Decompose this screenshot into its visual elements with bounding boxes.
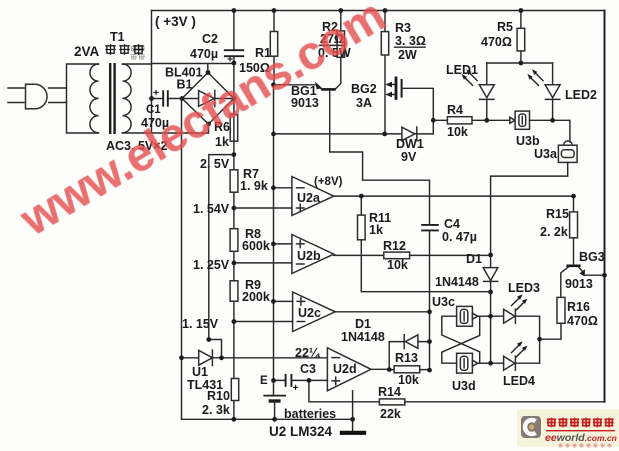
svg-text:U3d: U3d xyxy=(452,379,476,393)
junction dots comparator outputs xyxy=(359,194,607,373)
wire secondary bottom to bridge bottom vertex xyxy=(152,124,209,133)
op-amp U2c xyxy=(234,292,335,332)
svg-text:9V: 9V xyxy=(401,150,417,164)
svg-text:470Ω: 470Ω xyxy=(567,314,598,328)
diode D1 1N4148 (upper) xyxy=(435,252,498,363)
resistor R15 xyxy=(540,196,578,239)
capacitor C3 xyxy=(260,362,316,394)
op-amp U2d xyxy=(295,346,389,391)
svg-text:( +3V ): ( +3V ) xyxy=(155,14,196,29)
battery E xyxy=(263,396,336,421)
reed switch U3d xyxy=(452,353,491,393)
svg-text:2. 3k: 2. 3k xyxy=(202,403,230,417)
svg-text:9013: 9013 xyxy=(291,96,319,110)
svg-text:E: E xyxy=(260,375,268,387)
resistor R16 xyxy=(540,297,598,339)
resistor R1 xyxy=(239,11,278,85)
svg-text:R12: R12 xyxy=(383,239,406,253)
svg-text:1N4148: 1N4148 xyxy=(435,275,479,289)
capacitor C1 xyxy=(141,87,182,130)
op-amp U2b xyxy=(234,235,334,274)
svg-text:U3a: U3a xyxy=(534,147,558,161)
resistor R7 xyxy=(230,167,268,193)
capacitor C4 xyxy=(421,217,477,370)
capacitor C2 xyxy=(190,11,244,99)
svg-text:U3c: U3c xyxy=(432,295,455,309)
svg-text:10k: 10k xyxy=(387,258,408,272)
junction dots bridge area xyxy=(149,61,236,127)
svg-text:BG2: BG2 xyxy=(351,82,377,96)
svg-text:22k: 22k xyxy=(380,407,401,421)
LED LED3 xyxy=(491,281,540,323)
transistor BG3 9013 xyxy=(561,238,605,298)
svg-text:U2c: U2c xyxy=(298,306,321,320)
wire left frame edge from top rail to transformer secondary xyxy=(151,11,153,65)
svg-text:600k: 600k xyxy=(242,239,270,253)
transistor BG1 9013 xyxy=(274,62,430,225)
svg-text:470Ω: 470Ω xyxy=(481,35,512,49)
resistor R4 xyxy=(433,103,509,139)
wire divider column xyxy=(233,99,235,420)
svg-text:2W: 2W xyxy=(398,48,417,62)
svg-text:U3b: U3b xyxy=(516,134,540,148)
svg-text:R13: R13 xyxy=(395,351,418,365)
bridge rectifier B1 BL401 xyxy=(152,64,234,125)
svg-text:10k: 10k xyxy=(447,125,468,139)
svg-text:LED3: LED3 xyxy=(508,281,540,295)
resistor R10 xyxy=(202,379,239,418)
resistor R3 xyxy=(381,11,426,134)
svg-text:C4: C4 xyxy=(444,217,460,231)
svg-text:0. 47µ: 0. 47µ xyxy=(442,230,477,244)
svg-text:eeworld.com.cn: eeworld.com.cn xyxy=(545,432,617,444)
svg-text:U2a: U2a xyxy=(297,191,321,205)
svg-text:470µ: 470µ xyxy=(190,47,218,61)
resistor R5 xyxy=(481,11,525,64)
wire battery bottom rail xyxy=(182,418,353,420)
svg-text:2. 2k: 2. 2k xyxy=(540,225,568,239)
shunt regulator U1 TL431 xyxy=(182,99,328,420)
svg-text:+: + xyxy=(293,382,299,394)
wire latch cross coupling xyxy=(442,316,480,363)
svg-text:D1: D1 xyxy=(466,252,482,266)
wire +3V top rail xyxy=(152,10,605,12)
wire U2a output to R15 xyxy=(334,195,574,197)
reed relay coil U3a xyxy=(491,141,578,255)
svg-text:BG3: BG3 xyxy=(579,250,605,264)
resistor R8 xyxy=(230,227,270,253)
svg-text:R5: R5 xyxy=(497,20,513,34)
wire LED right column xyxy=(539,316,541,363)
svg-text:10k: 10k xyxy=(398,373,419,387)
LED LED4 xyxy=(491,341,540,388)
svg-text:C3: C3 xyxy=(300,362,316,376)
svg-text:9013: 9013 xyxy=(565,277,593,291)
resistor R11 xyxy=(358,196,491,292)
svg-text:1. 15V: 1. 15V xyxy=(182,317,219,331)
svg-text:U2d: U2d xyxy=(333,362,357,376)
resistor R12 xyxy=(334,239,491,272)
node 2.5V xyxy=(200,155,234,340)
svg-text:C2: C2 xyxy=(202,32,218,46)
svg-text:LED4: LED4 xyxy=(503,374,535,388)
ground xyxy=(269,391,366,439)
transistor BG2 3A xyxy=(351,77,433,134)
resistor R13 xyxy=(389,351,429,387)
LED LED2 xyxy=(527,63,597,120)
svg-text:R3: R3 xyxy=(395,21,411,35)
svg-text:DW1: DW1 xyxy=(396,137,424,151)
svg-text:2. 5V: 2. 5V xyxy=(200,157,230,171)
junction dots regulator area xyxy=(271,61,555,137)
junction dots E line xyxy=(271,185,276,382)
junction dots TL431 area xyxy=(179,337,311,383)
svg-text:200k: 200k xyxy=(242,290,270,304)
svg-text:2VA: 2VA xyxy=(74,44,107,59)
reed switch U3b xyxy=(510,111,570,148)
svg-text:R15: R15 xyxy=(546,207,569,221)
svg-text:U1: U1 xyxy=(192,365,208,379)
wire E sense line xyxy=(273,85,275,395)
svg-text:U2b: U2b xyxy=(297,249,321,263)
svg-text:1. 54V: 1. 54V xyxy=(193,202,230,216)
zener diode DW1 9V xyxy=(274,127,434,164)
svg-text:3. 3Ω: 3. 3Ω xyxy=(395,34,426,48)
resistor R2 xyxy=(318,11,351,62)
op-amp U2a xyxy=(234,176,343,216)
reed switch U3c xyxy=(432,295,491,326)
svg-text:LED2: LED2 xyxy=(565,88,597,102)
svg-text:1. 25V: 1. 25V xyxy=(193,258,230,272)
wire LED top bus xyxy=(487,62,553,64)
svg-text:T1: T1 xyxy=(110,30,125,44)
svg-text:R4: R4 xyxy=(447,103,463,117)
svg-text:1N4148: 1N4148 xyxy=(341,330,385,344)
wire right frame edge xyxy=(604,11,606,402)
svg-text:1k: 1k xyxy=(369,223,383,237)
svg-text:1. 9k: 1. 9k xyxy=(240,179,268,193)
resistor R9 xyxy=(230,278,270,304)
junction dots top rail xyxy=(232,8,524,13)
LED LED1 xyxy=(446,63,494,120)
diode D1 1N4148 (lower, at U2d) xyxy=(341,317,430,370)
transformer T1 xyxy=(67,30,168,153)
svg-text:U2 LM324: U2 LM324 xyxy=(269,424,333,439)
resistor R6 xyxy=(214,114,238,149)
plug P1 xyxy=(8,84,67,109)
svg-text:R14: R14 xyxy=(378,385,401,399)
resistor R14 xyxy=(309,380,605,421)
svg-text:TL431: TL431 xyxy=(187,378,223,392)
svg-text:+: + xyxy=(153,87,159,99)
svg-text:22¼: 22¼ xyxy=(295,346,321,360)
junction dots divider nodes xyxy=(232,152,237,324)
svg-text:3A: 3A xyxy=(356,96,372,110)
svg-text:R16: R16 xyxy=(567,300,590,314)
svg-text:D1: D1 xyxy=(355,317,371,331)
wire U2c output to C4 column xyxy=(335,311,429,313)
junction dots bottom rail xyxy=(232,417,356,422)
svg-text:(+8V): (+8V) xyxy=(314,176,343,188)
